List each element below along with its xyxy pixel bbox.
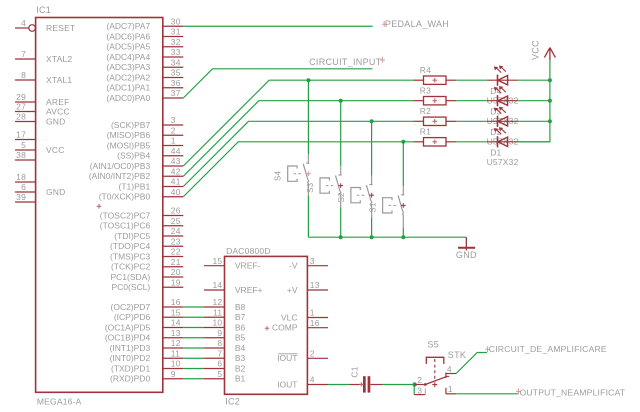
svg-text:C1: C1	[350, 366, 360, 377]
svg-text:4: 4	[310, 375, 315, 385]
svg-text:7: 7	[217, 348, 222, 358]
svg-text:R2: R2	[420, 106, 431, 116]
svg-text:(ICP)PD6: (ICP)PD6	[114, 312, 151, 322]
wire S3 to ground bus	[340, 208, 342, 238]
svg-text:VCC: VCC	[46, 145, 65, 155]
svg-text:(ADC4)PA4: (ADC4)PA4	[106, 52, 150, 62]
svg-text:23: 23	[171, 236, 181, 246]
IC1 pin 10 (TXD)PD1 (right)	[111, 359, 183, 374]
IC2 pin 3 -V (right)	[289, 256, 328, 271]
svg-text:B8: B8	[235, 302, 246, 312]
svg-text:AREF: AREF	[46, 97, 69, 107]
IC1 pin 29 AREF (left)	[15, 92, 36, 102]
svg-text:R1: R1	[420, 127, 431, 137]
IC2 DAC0800D body	[225, 246, 308, 406]
svg-text:D1: D1	[490, 148, 501, 158]
wire LED D1 to VCC rail	[518, 141, 550, 143]
IC1 pin 44 (SS)PB4 (right)	[117, 146, 183, 161]
IC2 pin 10 B6 (left)	[204, 318, 246, 333]
IC1 pin 34 (ADC3)PA3 (right)	[106, 57, 183, 72]
IC1 left pin names	[46, 23, 75, 197]
svg-text:13: 13	[310, 280, 320, 290]
IC2 pin 13 +V (right)	[287, 280, 328, 295]
wire S4 to ground bus	[307, 196, 309, 238]
svg-text:17: 17	[16, 130, 26, 140]
svg-text:B3: B3	[235, 353, 246, 363]
svg-text:B7: B7	[235, 312, 246, 322]
wire net row R3 from IC1 to resistor	[183, 101, 413, 177]
svg-text:3: 3	[310, 256, 315, 266]
svg-text:(TXD)PD1: (TXD)PD1	[111, 363, 150, 373]
wire IC1 PD0 to IC2 B1	[183, 378, 204, 380]
capacitor C1	[350, 366, 383, 392]
svg-text:9: 9	[171, 369, 176, 379]
svg-text:B6: B6	[235, 322, 246, 332]
svg-text:(INT1)PD3: (INT1)PD3	[110, 343, 151, 353]
resistor R3	[413, 85, 456, 105]
IC1 pin 21 (TCK)PC2 (right)	[111, 257, 183, 272]
svg-text:41: 41	[171, 177, 181, 187]
IC1 pin 4 RESET (left)	[15, 18, 35, 31]
IC1 pin 39 (left)	[15, 192, 36, 202]
wire resistor R1 to LED D1	[456, 141, 487, 143]
IC2 pin 5 B1 (left)	[204, 369, 246, 384]
svg-text:3: 3	[417, 386, 422, 396]
wire net OUTPUT_NEAMPLIFICAT from S5 pin1	[456, 393, 518, 395]
svg-text:(ADC3)PA3: (ADC3)PA3	[106, 62, 150, 72]
svg-text:VREF-: VREF-	[235, 261, 261, 271]
svg-text:MEGA16-A: MEGA16-A	[37, 397, 82, 407]
svg-text:26: 26	[171, 206, 181, 216]
IC1 pin 42 (AIN0/INT2)PB2 (right)	[89, 166, 184, 181]
IC1 pin 2 (MISO)PB6 (right)	[107, 125, 184, 140]
svg-text:VCC: VCC	[531, 40, 541, 60]
svg-text:(ADC6)PA6: (ADC6)PA6	[106, 31, 150, 41]
junction on row R4 at switch column	[306, 78, 310, 82]
svg-text:14: 14	[171, 318, 181, 328]
junction VCC rail / R2 row	[548, 119, 552, 123]
wire S1 to ground bus	[402, 227, 404, 237]
svg-text:(TOSC1)PC6: (TOSC1)PC6	[100, 221, 151, 231]
svg-text:4: 4	[21, 18, 26, 28]
IC2 pin 7 B3 (left)	[204, 348, 246, 363]
IC1 pin 22 (TMS)PC3 (right)	[110, 247, 183, 262]
IC1 pin 36 (ADC1)PA1 (right)	[106, 78, 183, 93]
wire IC1 PD1 to IC2 B2	[183, 368, 204, 370]
IC1 pin 1 (MOSI)PB5 (right)	[107, 136, 184, 151]
svg-text:S3: S3	[306, 182, 315, 193]
switch S2	[337, 176, 374, 217]
wire C1 to S5 node	[383, 384, 415, 386]
svg-text:(OC1B)PD4: (OC1B)PD4	[105, 333, 151, 343]
svg-text:1: 1	[310, 308, 315, 318]
IC1 pin 19 PC0(SCL) (right)	[111, 277, 183, 292]
svg-text:10: 10	[171, 359, 181, 369]
svg-text:B4: B4	[235, 343, 246, 353]
wire net row R4 from IC1 to resistor	[183, 80, 413, 166]
IC1 pin 13 (OC1B)PD4 (right)	[105, 328, 183, 343]
svg-text:44: 44	[171, 146, 181, 156]
svg-text:(T0/XCK)PB0: (T0/XCK)PB0	[99, 192, 151, 202]
svg-text:RESET: RESET	[46, 23, 75, 33]
svg-text:(TOSC2)PC7: (TOSC2)PC7	[100, 210, 151, 220]
svg-text:7: 7	[21, 49, 26, 59]
svg-text:15: 15	[171, 307, 181, 317]
svg-text:22: 22	[171, 247, 181, 257]
svg-text:39: 39	[16, 192, 26, 202]
wire net row R2 from IC1 to resistor	[183, 121, 413, 186]
svg-text:24: 24	[171, 226, 181, 236]
IC1 pin 28 GND (left)	[15, 112, 36, 122]
svg-text:33: 33	[171, 47, 181, 57]
IC1 pin 20 PC1(SDA) (right)	[111, 267, 184, 282]
svg-text:19: 19	[171, 277, 181, 287]
svg-text:AVCC: AVCC	[46, 106, 70, 116]
svg-text:5: 5	[217, 369, 222, 379]
svg-text:(TDO)PC4: (TDO)PC4	[110, 241, 150, 251]
svg-text:XTAL1: XTAL1	[46, 75, 72, 85]
svg-text:(MOSI)PB5: (MOSI)PB5	[107, 140, 151, 150]
svg-text:(ADC2)PA2: (ADC2)PA2	[106, 72, 150, 82]
svg-text:11: 11	[213, 307, 222, 317]
IC1 pin 27 AVCC (left)	[15, 102, 36, 112]
svg-text:DAC0800D: DAC0800D	[226, 246, 271, 256]
wire S4 column from row R4 to switch	[307, 80, 309, 154]
svg-text:(OC1A)PD5: (OC1A)PD5	[105, 322, 151, 332]
svg-text:B5: B5	[235, 333, 246, 343]
wire S2 column from row R2 to switch	[371, 121, 373, 176]
wire resistor R2 to LED D2	[456, 120, 487, 122]
wire IC1 PD3 to IC2 B4	[183, 347, 204, 349]
wire S1 column from row R1 to switch	[402, 142, 404, 186]
wire resistor R4 to LED D4	[456, 79, 487, 81]
svg-text:R3: R3	[420, 85, 431, 95]
svg-text:(ADC0)PA0: (ADC0)PA0	[106, 93, 150, 103]
IC1 pin 41 (T1)PB1 (right)	[119, 177, 184, 192]
switch S3	[306, 166, 343, 207]
IC1 pin 6 (left)	[15, 182, 36, 192]
svg-text:20: 20	[171, 267, 181, 277]
svg-text:B2: B2	[235, 363, 246, 373]
svg-text:10: 10	[212, 318, 222, 328]
wire VCC rail	[518, 60, 550, 142]
svg-text:42: 42	[171, 166, 181, 176]
IC1 pin 33 (ADC4)PA4 (right)	[106, 47, 183, 62]
wire LED D3 to VCC rail	[518, 100, 550, 102]
svg-text:15: 15	[212, 256, 222, 266]
svg-text:(AIN1/OC0)PB3: (AIN1/OC0)PB3	[90, 161, 151, 171]
svg-text:+V: +V	[287, 285, 298, 295]
svg-text:6: 6	[217, 359, 222, 369]
svg-text:PEDALA_WAH: PEDALA_WAH	[385, 19, 449, 29]
IC1 pin 37 (ADC0)PA0 (right)	[106, 88, 183, 103]
junction bus/S1	[401, 235, 405, 239]
svg-text:36: 36	[171, 78, 181, 88]
IC1 pin 23 (TDO)PC4 (right)	[110, 236, 183, 251]
svg-text:CIRCUIT_INPUT: CIRCUIT_INPUT	[309, 57, 382, 67]
IC1 pin 30 (ADC7)PA7 (right)	[106, 16, 183, 31]
svg-text:18: 18	[16, 172, 26, 182]
svg-text:CIRCUIT_DE_AMPLIFICARE: CIRCUIT_DE_AMPLIFICARE	[489, 344, 607, 354]
svg-text:2: 2	[417, 375, 422, 385]
svg-text:12: 12	[171, 338, 181, 348]
junction VCC rail / R3 row	[548, 99, 552, 103]
svg-text:GND: GND	[46, 187, 66, 197]
wire IC1 PD2 to IC2 B3	[183, 357, 204, 359]
IC1 pin 31 (ADC6)PA6 (right)	[106, 27, 183, 42]
svg-text:(T1)PB1: (T1)PB1	[119, 181, 151, 191]
svg-text:(ADC1)PA1: (ADC1)PA1	[106, 83, 150, 93]
IC1 pin 16 (OC2)PD7 (right)	[111, 297, 184, 312]
resistor R4	[413, 65, 456, 85]
svg-text:(INT0)PD2: (INT0)PD2	[110, 353, 151, 363]
junction bus/S2	[370, 235, 374, 239]
IC2 pin 4 IOUT (right)	[277, 375, 328, 390]
svg-text:VLC: VLC	[281, 312, 298, 322]
svg-text:IC2: IC2	[225, 396, 240, 406]
svg-text:34: 34	[171, 57, 181, 67]
wire net PEDALA_WAH from IC1 pin30	[183, 25, 372, 27]
svg-text:(TMS)PC3: (TMS)PC3	[110, 251, 150, 261]
svg-text:9: 9	[217, 328, 222, 338]
svg-text:(ADC7)PA7: (ADC7)PA7	[106, 21, 150, 31]
junction on row R1 at switch column	[401, 140, 405, 144]
svg-text:GND: GND	[456, 250, 477, 260]
svg-text:2: 2	[310, 349, 315, 359]
IC1 pin 15 (ICP)PD6 (right)	[114, 307, 183, 322]
net label CIRCUIT_DE_AMPLIFICARE	[485, 344, 607, 354]
svg-text:2: 2	[171, 125, 176, 135]
svg-text:S1: S1	[369, 202, 378, 213]
wire net CIRCUIT_INPUT from IC1 pin37	[183, 69, 372, 98]
svg-text:VREF+: VREF+	[235, 285, 263, 295]
svg-text:35: 35	[171, 68, 181, 78]
svg-text:5: 5	[21, 140, 26, 150]
IC1 pin 43 (AIN1/OC0)PB3 (right)	[90, 156, 184, 171]
svg-text:PC0(SCL): PC0(SCL)	[111, 282, 150, 292]
IC1 pin 24 (TDI)PC5 (right)	[114, 226, 183, 241]
svg-text:(AIN0/INT2)PB2: (AIN0/INT2)PB2	[89, 171, 151, 181]
svg-text:(ADC5)PA5: (ADC5)PA5	[106, 42, 150, 52]
LED D1 U57X32	[487, 128, 519, 168]
svg-text:16: 16	[171, 297, 181, 307]
svg-text:IOUT: IOUT	[277, 353, 297, 363]
wire node down to S5 pin3	[413, 385, 415, 395]
svg-text:STK: STK	[448, 350, 466, 360]
svg-text:4: 4	[447, 364, 452, 374]
wire IC1 PD6 to IC2 B7	[183, 316, 204, 318]
svg-text:IOUT: IOUT	[277, 379, 297, 389]
svg-text:16: 16	[310, 318, 320, 328]
switch S5 STK	[414, 339, 466, 395]
junction VCC rail / R4 row	[548, 78, 552, 82]
net label PEDALA_WAH	[382, 19, 449, 29]
IC1 pin 8 XTAL1 (left)	[15, 70, 36, 80]
wire net CIRCUIT_DE_AMPLIFICARE from S5 pin4	[456, 353, 487, 374]
svg-text:6: 6	[21, 182, 26, 192]
IC1 pin 14 (OC1A)PD5 (right)	[105, 318, 183, 333]
power VCC symbol	[531, 40, 556, 60]
junction on row R3 at switch column	[339, 99, 343, 103]
IC1 pin 38 (left)	[15, 150, 36, 160]
junction C1/S5 node	[412, 382, 416, 386]
wire LED D4 to VCC rail	[518, 79, 550, 81]
svg-text:40: 40	[171, 187, 181, 197]
svg-text:1: 1	[171, 136, 176, 146]
IC2 pin 9 B5 (left)	[204, 328, 246, 343]
svg-text:12: 12	[212, 297, 222, 307]
IC2 pin 6 B2 (left)	[204, 359, 246, 374]
IC2 pin 14 VREF+ (left)	[204, 280, 263, 295]
svg-text:21: 21	[171, 257, 181, 267]
svg-text:3: 3	[171, 115, 176, 125]
svg-text:XTAL2: XTAL2	[46, 54, 72, 64]
svg-text:R4: R4	[420, 65, 431, 75]
svg-text:8: 8	[21, 70, 26, 80]
svg-text:S2: S2	[337, 192, 346, 203]
svg-text:13: 13	[171, 328, 181, 338]
LED D2 U57X32	[487, 107, 519, 147]
resistor R2	[413, 106, 456, 126]
svg-text:COMP: COMP	[272, 323, 298, 333]
LED D4 U57X32	[487, 66, 519, 106]
svg-text:25: 25	[171, 216, 181, 226]
LED D3 U57X32	[487, 86, 519, 126]
IC2 pin 11 B7 (left)	[204, 307, 246, 322]
svg-text:37: 37	[171, 88, 181, 98]
wire LED D2 to VCC rail	[518, 120, 550, 122]
IC1 pin 17 (left)	[15, 130, 36, 140]
IC1 pin 5 VCC (left)	[15, 140, 36, 150]
IC1 pin 40 (T0/XCK)PB0 (right)	[99, 187, 184, 202]
svg-text:(SCK)PB7: (SCK)PB7	[111, 120, 150, 130]
wire resistor R3 to LED D3	[456, 100, 487, 102]
net label CIRCUIT_INPUT	[309, 57, 385, 67]
wire IC2 pin4 IOUT to C1	[328, 384, 350, 386]
svg-text:(MISO)PB6: (MISO)PB6	[107, 130, 151, 140]
svg-text:43: 43	[171, 156, 181, 166]
IC2 pin 16 COMP (right)	[272, 318, 328, 333]
wire net row R1 from IC1 to resistor	[183, 142, 413, 197]
svg-text:(OC2)PD7: (OC2)PD7	[111, 302, 151, 312]
svg-text:(TDI)PC5: (TDI)PC5	[114, 231, 150, 241]
svg-text:31: 31	[171, 27, 181, 37]
svg-text:-V: -V	[289, 261, 298, 271]
svg-text:1: 1	[448, 384, 453, 394]
IC2 pin 12 B8 (left)	[204, 297, 246, 312]
IC1 pin 11 (INT0)PD2 (right)	[110, 348, 184, 363]
IC2 pin 15 VREF- (left)	[204, 256, 261, 271]
svg-text:GND: GND	[46, 116, 66, 126]
svg-text:PC1(SDA): PC1(SDA)	[111, 272, 151, 282]
wire IC1 PD4 to IC2 B5	[183, 337, 204, 339]
svg-text:IC1: IC1	[36, 5, 51, 15]
svg-text:B1: B1	[235, 374, 246, 384]
junction bus/S3	[339, 235, 343, 239]
svg-text:(TCK)PC2: (TCK)PC2	[111, 262, 150, 272]
svg-text:27: 27	[16, 102, 26, 112]
wire IC1 PD7 to IC2 B8	[183, 306, 204, 308]
IC1 pin 35 (ADC2)PA2 (right)	[106, 68, 183, 83]
svg-text:28: 28	[16, 112, 26, 122]
IC1 pin 3 (SCK)PB7 (right)	[111, 115, 183, 130]
switch S1	[369, 186, 406, 227]
IC1 pin 9 (RXD)PD0 (right)	[110, 369, 183, 384]
svg-text:(RXD)PD0: (RXD)PD0	[110, 374, 150, 384]
svg-text:14: 14	[212, 280, 222, 290]
svg-text:32: 32	[171, 37, 181, 47]
svg-text:OUTPUT_NEAMPLIFICAT: OUTPUT_NEAMPLIFICAT	[520, 388, 626, 398]
svg-text:29: 29	[16, 92, 26, 102]
IC1 pin 32 (ADC5)PA5 (right)	[106, 37, 183, 52]
wire IC1 PD5 to IC2 B6	[183, 327, 204, 329]
resistor R1	[413, 127, 456, 147]
svg-text:30: 30	[171, 16, 181, 26]
svg-text:S4: S4	[274, 170, 283, 181]
svg-text:S5: S5	[427, 339, 439, 349]
svg-text:11: 11	[171, 348, 180, 358]
junction on row R2 at switch column	[370, 119, 374, 123]
svg-text:(SS)PB4: (SS)PB4	[117, 151, 150, 161]
switch S4	[274, 154, 311, 195]
ground symbol GND	[456, 237, 477, 260]
IC1 pin 26 (TOSC2)PC7 (right)	[100, 206, 183, 221]
IC IC1 MEGA16-A microcontroller body	[36, 5, 163, 406]
wire ground bus	[308, 236, 466, 238]
IC2 pin 2 IOUT (right)	[277, 349, 328, 364]
IC1 pin 25 (TOSC1)PC6 (right)	[100, 216, 183, 231]
svg-text:U57X32: U57X32	[487, 157, 519, 167]
wire S2 to ground bus	[371, 217, 373, 237]
IC2 pin 1 VLC (right)	[281, 308, 328, 323]
IC2 pin 8 B4 (left)	[204, 338, 246, 353]
svg-text:38: 38	[16, 150, 26, 160]
IC1 pin 12 (INT1)PD3 (right)	[110, 338, 184, 353]
IC1 pin 18 (left)	[15, 172, 36, 182]
svg-text:8: 8	[217, 338, 222, 348]
IC1 pin 7 XTAL2 (left)	[15, 49, 36, 59]
wire S3 column from row R3 to switch	[340, 101, 342, 167]
net label OUTPUT_NEAMPLIFICAT	[516, 388, 626, 398]
